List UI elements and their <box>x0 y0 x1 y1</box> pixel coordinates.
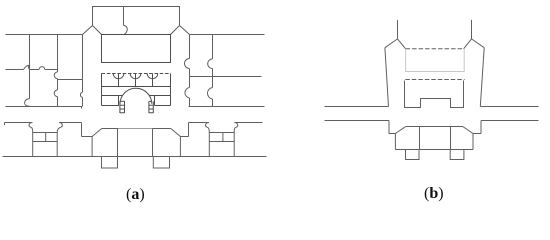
wire shoulder chamfer left (b) <box>385 39 406 49</box>
node gate flank room left (a) <box>102 96 119 106</box>
wall h2r (a) <box>190 76 262 78</box>
wall left step (a) <box>82 123 93 137</box>
node light inner room (b) <box>406 49 465 72</box>
wire rampart chamfer right (b) <box>463 127 473 134</box>
wire v3 door arc (a) <box>80 92 82 97</box>
wall h2 (a) <box>6 69 58 71</box>
wall rampart inner v1 (a) <box>117 129 119 157</box>
wall h2b (a) <box>58 79 83 81</box>
wire dashed lintel (b) <box>406 48 464 50</box>
wall rampart bottom (b) <box>395 149 473 151</box>
wall rampart top middle light (a) <box>118 128 153 130</box>
wall h4 mid (a) <box>59 122 82 124</box>
node buttress left (b) <box>406 150 420 160</box>
wall gate outer verticals (a) <box>102 74 171 106</box>
wire gate door symbol 3 (a) <box>147 74 158 87</box>
wire divider door arc (a) <box>124 25 128 34</box>
wire shoulder chamfer right (b) <box>464 39 485 49</box>
wall v3 (a) <box>82 35 84 107</box>
node stair ladder left (a) <box>120 101 125 113</box>
node corner tower right (a) <box>209 133 234 157</box>
wire v1 bottom door arc (a) <box>25 99 31 107</box>
wire right shoulder chamfer (a) <box>171 26 190 35</box>
wire arch foot tick left (a) <box>120 100 124 102</box>
label (a) <box>126 186 145 204</box>
wall rampart pier right (a) <box>179 137 181 157</box>
wall A left (b) <box>325 106 389 108</box>
wire rampart chamfer left (a) <box>92 129 102 137</box>
wire gate dashed line (a) <box>102 73 171 75</box>
wire gate door symbol 1 (a) <box>113 74 124 87</box>
wall h1 left (a) <box>6 34 83 36</box>
wire left shoulder chamfer (a) <box>83 26 102 35</box>
node inner hall with notch (b) <box>405 81 464 108</box>
node gate flank room right (a) <box>155 96 171 106</box>
node stair ladder right (a) <box>149 101 153 113</box>
wall h6 long bottom (a) <box>3 156 267 158</box>
wall step right (b) <box>473 121 481 134</box>
wire corner tower hook right-2 (a) <box>234 123 238 133</box>
node corner tower left (a) <box>33 133 58 157</box>
wire tower top outline (a) <box>93 7 180 26</box>
wire v2 lower door arc (a) <box>54 90 57 97</box>
wire corner tower hook left-2 (a) <box>57 123 62 133</box>
wire stub right (b) <box>471 20 473 39</box>
wire h2 door arc 2 (a) <box>39 67 45 70</box>
wall A right (b) <box>480 106 538 108</box>
wall rampart sides (b) <box>395 134 473 150</box>
wire v4 upper door arc (a) <box>185 59 190 69</box>
wire rampart chamfer left (b) <box>395 127 405 134</box>
wall rampart top (a) <box>102 128 171 130</box>
wall rampart inner v2 (a) <box>152 129 154 157</box>
wire tower divider (a) <box>123 7 125 26</box>
wall h1 right (a) <box>190 34 265 36</box>
wire gate door symbol 2 (a) <box>130 74 141 87</box>
wall right step (a) <box>180 123 188 137</box>
wall B left (b) <box>325 120 390 122</box>
node buttress left below h6 (a) <box>102 157 118 169</box>
wall rampart pier left (a) <box>91 137 93 157</box>
node buttress right (b) <box>450 150 464 160</box>
wall outer edge right (b) <box>480 48 484 107</box>
wall v2 (a) <box>57 35 59 107</box>
wall gate line2 (a) <box>102 86 171 88</box>
wall gate line3 (a) <box>102 95 171 97</box>
wire dashed line2 (b) <box>405 79 464 81</box>
wall rampart top (b) <box>406 126 463 128</box>
wire v4 lower door arc (a) <box>185 88 190 99</box>
wall outer edge left (b) <box>385 48 389 107</box>
wall h3 (a) <box>6 107 82 109</box>
wall rampart inner verticals (b) <box>420 127 451 150</box>
node buttress right below h6 (a) <box>153 157 169 169</box>
wire rampart chamfer right (a) <box>171 129 181 137</box>
wall B right (b) <box>481 120 539 122</box>
wire v5 lower door arc (a) <box>207 88 212 100</box>
wire corner tower hook left-1 (a) <box>29 123 33 133</box>
wall v1 (a) <box>29 35 31 99</box>
wire h2 door leaf arc (a) <box>24 65 30 69</box>
wall h4r mid (a) <box>189 122 209 124</box>
wall step left (b) <box>389 121 395 134</box>
wall v4 (a) <box>189 35 191 107</box>
wall h4 left (a) <box>5 123 33 126</box>
wire v2 upper door arc (a) <box>54 72 57 79</box>
node inner hall rectangle (a) <box>102 35 171 63</box>
wall h4r right (a) <box>234 122 262 124</box>
wire v5 upper door arc (a) <box>208 59 213 69</box>
wire arch foot tick right (a) <box>149 100 152 102</box>
wire gate arch (a) <box>120 88 152 104</box>
label (b) <box>424 185 444 203</box>
wall v5 (a) <box>212 35 214 107</box>
wire stub left (b) <box>397 20 399 39</box>
wire corner tower hook right-1 (a) <box>206 123 210 133</box>
wall h3r (a) <box>189 106 265 108</box>
